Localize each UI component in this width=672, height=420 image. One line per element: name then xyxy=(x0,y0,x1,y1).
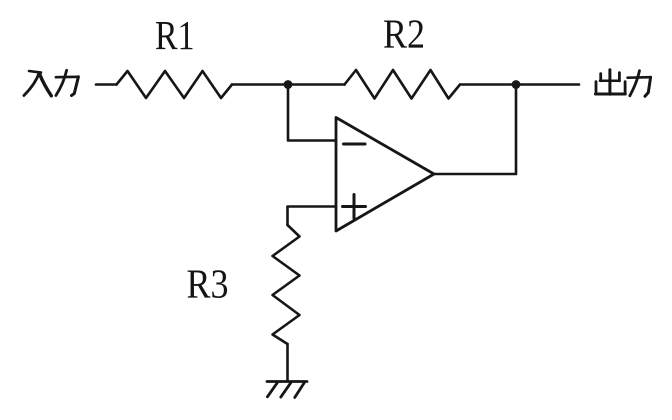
wire input lead xyxy=(96,83,117,86)
minus sign (inverting input) xyxy=(344,143,366,146)
op-amp U1 xyxy=(336,118,434,232)
wire non-inverting input to R3 xyxy=(288,207,337,226)
resistor R3 xyxy=(273,225,300,344)
wire R2 to node B xyxy=(460,83,516,86)
wire R1 to node A xyxy=(232,83,288,86)
node B junction xyxy=(512,80,521,89)
wire op-amp output to node B xyxy=(434,85,516,175)
resistor R1 xyxy=(117,71,233,98)
wire node A down to inverting input xyxy=(288,85,336,141)
svg-text:R1: R1 xyxy=(155,12,195,58)
plus sign (non-inverting input) xyxy=(343,195,366,219)
svg-text:R3: R3 xyxy=(187,261,229,307)
wire R3 to ground xyxy=(286,344,289,381)
wire node B to output xyxy=(516,83,579,86)
ground xyxy=(267,382,307,398)
node A junction xyxy=(284,80,293,89)
resistor R2 xyxy=(345,70,461,99)
label 入力 (input) xyxy=(24,70,79,96)
label 出力 (output) xyxy=(595,70,650,97)
wire node A to R2 xyxy=(288,83,345,86)
svg-text:R2: R2 xyxy=(383,11,425,57)
